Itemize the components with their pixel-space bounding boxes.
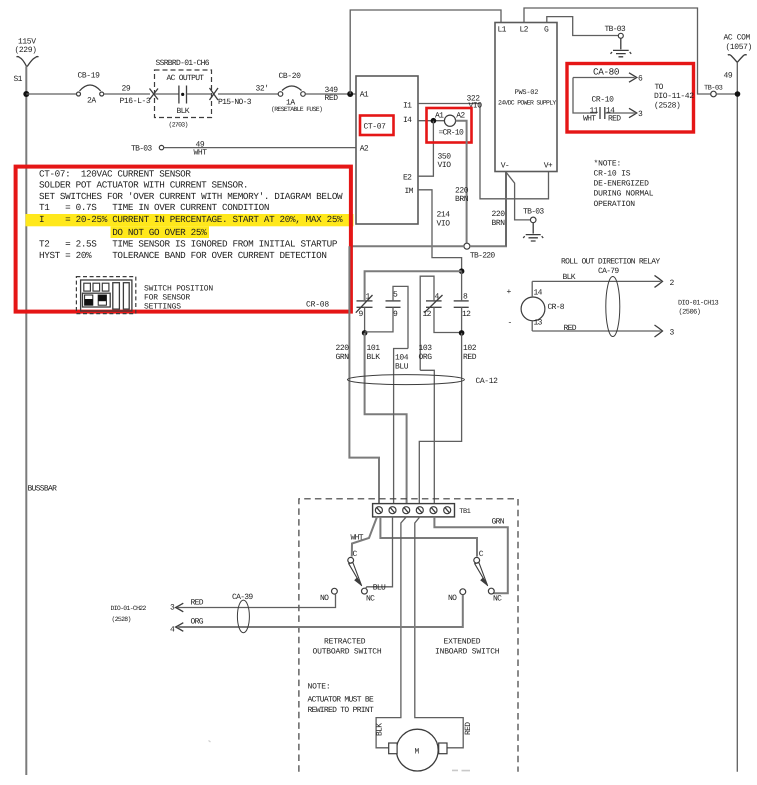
wire 103 ORG bbox=[419, 344, 435, 504]
svg-text:NOTE:: NOTE: bbox=[308, 683, 331, 692]
svg-text:I = 20-25% CURRENT IN PERCE: I = 20-25% CURRENT IN PERCENTAGE. START … bbox=[39, 214, 343, 225]
right switch C terminal bbox=[474, 550, 484, 563]
yellow highlight band 2 bbox=[111, 226, 210, 238]
svg-text:WHT: WHT bbox=[583, 115, 596, 124]
svg-text:GRN: GRN bbox=[492, 518, 505, 527]
svg-text:A1: A1 bbox=[360, 91, 369, 100]
svg-text:TB1: TB1 bbox=[459, 508, 470, 516]
AC COM (1057) source bbox=[724, 34, 752, 63]
junction contacts 4/8 bbox=[459, 330, 465, 336]
contact 8 bottom lead bbox=[461, 307, 463, 333]
svg-text:TB-03: TB-03 bbox=[131, 145, 152, 154]
contact 4 top lead to 103 ORG bbox=[420, 276, 434, 370]
wire CA-80 to pin 6 bbox=[573, 67, 643, 84]
svg-text:VIO: VIO bbox=[437, 220, 451, 229]
svg-text:BLK: BLK bbox=[563, 273, 576, 282]
svg-text:NO: NO bbox=[320, 594, 329, 603]
left switch lever bbox=[349, 562, 362, 586]
RETRACTED OUTBOARD SWITCH label bbox=[313, 638, 382, 657]
wire 102 RED bbox=[419, 333, 477, 504]
svg-text:HYST = 20% TOLERANCE BAND F: HYST = 20% TOLERANCE BAND FOR OVER CURRE… bbox=[39, 250, 327, 261]
svg-text:RETRACTED: RETRACTED bbox=[324, 638, 366, 647]
svg-text:RED: RED bbox=[463, 353, 477, 362]
wire CA-80 left leg bbox=[573, 78, 597, 114]
svg-text:-: - bbox=[508, 319, 512, 328]
wire RED to pin 3 bbox=[532, 321, 674, 338]
svg-text:FOR SENSOR: FOR SENSOR bbox=[144, 293, 190, 302]
junction at S1 bbox=[23, 91, 29, 97]
svg-text:CA-79: CA-79 bbox=[598, 267, 619, 276]
NOTE actuator rewire bbox=[308, 683, 375, 716]
svg-text:(2528): (2528) bbox=[112, 616, 131, 623]
svg-text:(1057): (1057) bbox=[726, 43, 752, 52]
svg-text:I1: I1 bbox=[403, 102, 412, 111]
svg-text:102: 102 bbox=[463, 344, 477, 353]
svg-text:14: 14 bbox=[534, 289, 543, 298]
svg-text:BLK: BLK bbox=[367, 353, 381, 362]
left switch NC terminal bbox=[362, 588, 376, 603]
svg-text:32': 32' bbox=[256, 85, 269, 94]
svg-text:AC OUTPUT: AC OUTPUT bbox=[167, 74, 205, 83]
svg-text:(2703): (2703) bbox=[169, 122, 188, 129]
svg-text:DIO-01-CH22: DIO-01-CH22 bbox=[111, 605, 147, 612]
svg-text:EXTENDED: EXTENDED bbox=[444, 638, 481, 647]
svg-text:L1: L1 bbox=[498, 26, 507, 35]
contact 8 top lead bbox=[461, 271, 463, 301]
svg-text:CT-07: 120VAC CURRENT SENSOR: CT-07: 120VAC CURRENT SENSOR bbox=[39, 168, 191, 179]
wire I4 to CR-10 coil bbox=[418, 120, 445, 122]
svg-text:DIO-01-CH13: DIO-01-CH13 bbox=[678, 300, 719, 308]
contact CR-10 11/14 bbox=[583, 96, 621, 124]
wire 49 to AC COM bus bbox=[716, 72, 737, 95]
svg-text:*NOTE:: *NOTE: bbox=[594, 160, 622, 169]
wire TB-220 rail bbox=[349, 172, 506, 247]
svg-text:L2: L2 bbox=[520, 26, 529, 35]
svg-text:A2: A2 bbox=[360, 145, 369, 154]
svg-text:CR-10: CR-10 bbox=[592, 96, 615, 105]
contact feed rail bbox=[365, 271, 462, 300]
wire contact to pin 3 bbox=[605, 108, 643, 119]
TB1 screw 4 bbox=[416, 507, 423, 514]
TB1 screw 5 bbox=[430, 507, 437, 514]
wire ORG (pin 4 to right NO) bbox=[170, 595, 463, 635]
NOTE: CR-10 de-energized bbox=[594, 160, 654, 210]
svg-text:BLU: BLU bbox=[395, 363, 409, 372]
svg-text:V-: V- bbox=[501, 162, 509, 171]
svg-text:DE-ENERGIZED: DE-ENERGIZED bbox=[594, 180, 650, 189]
svg-text:CR-08: CR-08 bbox=[306, 301, 329, 310]
svg-text:AC COM: AC COM bbox=[724, 34, 751, 43]
svg-text:BUSSBAR: BUSSBAR bbox=[28, 485, 58, 494]
CR-10 annotation red box bbox=[567, 64, 694, 133]
svg-text:BRN: BRN bbox=[492, 219, 506, 228]
junction IM rail bbox=[459, 268, 465, 274]
svg-text:(RESETABLE FUSE): (RESETABLE FUSE) bbox=[271, 106, 322, 113]
svg-text:E2: E2 bbox=[403, 174, 412, 183]
svg-text:214: 214 bbox=[437, 211, 451, 220]
wire 350 VIO (E2 up to coil junction) bbox=[418, 121, 451, 177]
svg-text:T1 = 0.7S TIME IN OVER CUR: T1 = 0.7S TIME IN OVER CURRENT CONDITION bbox=[39, 202, 269, 213]
svg-text:CT-07: CT-07 bbox=[364, 123, 387, 132]
svg-text:DO NOT GO OVER 25%: DO NOT GO OVER 25% bbox=[39, 227, 207, 238]
svg-text:220: 220 bbox=[492, 210, 506, 219]
ground symbol (V- TB-03) bbox=[523, 223, 543, 241]
svg-text:NC: NC bbox=[493, 595, 502, 604]
contact 4 bottom lead bbox=[434, 307, 462, 332]
svg-text:RED: RED bbox=[608, 115, 621, 124]
DIP switch symbol bbox=[76, 277, 135, 314]
svg-text:CB-20: CB-20 bbox=[279, 72, 302, 81]
terminal block TB1 bbox=[373, 504, 471, 517]
terminal TB-220 bbox=[464, 243, 496, 260]
current sensor CT-07 box bbox=[356, 76, 418, 224]
resettable fuse CB-20 bbox=[271, 72, 322, 113]
wire screw3 to motor BLK bbox=[376, 517, 406, 748]
TB1 screw 3 bbox=[403, 507, 410, 514]
svg-text:DIO-11-42: DIO-11-42 bbox=[654, 92, 694, 101]
svg-text:A2: A2 bbox=[456, 112, 465, 121]
svg-text:CR-8: CR-8 bbox=[548, 303, 565, 312]
bussbar wire (left vertical bus) bbox=[25, 67, 27, 776]
svg-text:103: 103 bbox=[419, 344, 433, 353]
contact 5 top lead to 104 BLU bbox=[393, 286, 408, 348]
svg-text:BLU: BLU bbox=[373, 584, 386, 593]
junction contacts 1/5 bbox=[362, 330, 368, 336]
svg-text:(2528): (2528) bbox=[654, 102, 680, 111]
power supply PWS-02 box bbox=[495, 23, 557, 172]
svg-text:IM: IM bbox=[405, 187, 414, 196]
junction on AC COM bus bbox=[735, 91, 741, 97]
svg-text:12: 12 bbox=[423, 310, 432, 319]
wire 220 BRN (V- down to TB-220 rail) bbox=[492, 172, 507, 247]
TB1 screw 1 bbox=[375, 507, 382, 514]
contact 5 bottom lead bbox=[365, 307, 393, 332]
svg-text:V+: V+ bbox=[544, 162, 553, 171]
svg-text:WHT: WHT bbox=[351, 534, 364, 543]
wire 29 / P16-L-3 bbox=[104, 85, 151, 107]
source 115V (229) bbox=[15, 38, 39, 67]
relay contact CR-08 1/9 (NC) bbox=[356, 292, 373, 319]
svg-text:(2506): (2506) bbox=[679, 308, 701, 317]
SSR board dashed box SSRBRD-01-CH6 bbox=[155, 59, 212, 129]
wire WHT (screw1 to left switch C) bbox=[351, 517, 378, 557]
svg-text:BLK: BLK bbox=[376, 723, 385, 736]
wire A1 junction up to PWS L1 bbox=[350, 10, 501, 94]
wire 49 WHT to A2 bbox=[164, 141, 356, 158]
right switch NC terminal bbox=[488, 588, 502, 603]
svg-text:ACTUATOR MUST BE: ACTUATOR MUST BE bbox=[308, 696, 375, 705]
wire GRN (screw5 to right NC) bbox=[434, 517, 507, 593]
svg-text:S1: S1 bbox=[14, 75, 23, 84]
relay coil CR-10 (red box annotation) bbox=[427, 108, 472, 143]
wire 101 BLK bbox=[365, 333, 407, 504]
svg-text:RED: RED bbox=[564, 324, 577, 333]
TB1 screw 6 bbox=[444, 507, 451, 514]
svg-text:WHT: WHT bbox=[194, 149, 208, 158]
svg-text:101: 101 bbox=[367, 344, 381, 353]
svg-text:SOLDER POT ACTUATOR WITH CURRE: SOLDER POT ACTUATOR WITH CURRENT SENSOR. bbox=[39, 180, 248, 191]
splice X at SSR box left bbox=[150, 89, 159, 100]
svg-text:DURING NORMAL: DURING NORMAL bbox=[594, 190, 654, 199]
SSR output symbol (bars with dot) bbox=[155, 86, 212, 104]
wire 220 BRN (coil A2 down to TB-220) bbox=[455, 121, 469, 243]
contact 1 bottom lead bbox=[364, 307, 366, 333]
svg-text:ROLL OUT DIRECTION RELAY: ROLL OUT DIRECTION RELAY bbox=[561, 258, 660, 267]
faint print artifact marks bbox=[452, 769, 470, 771]
right switch NO terminal bbox=[448, 589, 466, 603]
CT-07 note red box bbox=[16, 167, 351, 312]
svg-text:NC: NC bbox=[366, 595, 375, 604]
terminal TB-03 (right) bbox=[704, 85, 723, 97]
relay contact CR-08 8/12 (NO) bbox=[454, 292, 471, 319]
wire RED (pin 3 to left NO) bbox=[170, 594, 336, 612]
DIP switch caption bbox=[144, 285, 213, 312]
splice X at SSR box right bbox=[210, 88, 219, 100]
wire 349 RED bbox=[305, 86, 356, 103]
terminal TB-03 (49 WHT) bbox=[131, 145, 164, 154]
svg-text:T2 = 2.5S TIME SENSOR IS I: T2 = 2.5S TIME SENSOR IS IGNORED FROM IN… bbox=[39, 239, 338, 250]
terminal TB-03 (near V-) bbox=[523, 208, 544, 223]
svg-text:(229): (229) bbox=[15, 46, 37, 55]
svg-text:I4: I4 bbox=[403, 116, 412, 125]
wire V- to TB-03 ground (diagonal) bbox=[506, 172, 531, 220]
svg-text:220: 220 bbox=[336, 344, 350, 353]
svg-text:ORG: ORG bbox=[419, 353, 433, 362]
svg-text:BLK: BLK bbox=[177, 107, 190, 116]
svg-text:CB-19: CB-19 bbox=[78, 72, 101, 81]
wire BLU (screw2 to left NC) bbox=[365, 517, 392, 593]
svg-text:TO: TO bbox=[655, 83, 664, 92]
svg-text:REWIRED TO PRINT: REWIRED TO PRINT bbox=[308, 706, 375, 715]
svg-text:24VDC POWER SUPPLY: 24VDC POWER SUPPLY bbox=[498, 100, 556, 107]
terminal TB-03 (top) bbox=[605, 25, 626, 38]
svg-text:PWS-02: PWS-02 bbox=[515, 89, 539, 97]
wire BLK to pin 2 bbox=[532, 273, 674, 297]
svg-text:NO: NO bbox=[448, 594, 457, 603]
svg-text:A1: A1 bbox=[435, 112, 444, 121]
svg-text:13: 13 bbox=[534, 319, 543, 328]
TB1 screw 2 bbox=[389, 507, 396, 514]
svg-text:CA-80: CA-80 bbox=[593, 67, 619, 78]
wire S1 to CB-19 bbox=[26, 93, 76, 95]
junction I4 / E2 / coil bbox=[431, 118, 437, 124]
svg-text:P15-NO-3: P15-NO-3 bbox=[218, 98, 252, 107]
DIO-01-CH13 (2506) label bbox=[678, 300, 719, 317]
wire L2 to AC COM bus (top frame) bbox=[524, 8, 711, 94]
svg-text:VIO: VIO bbox=[438, 161, 452, 170]
svg-text:OPERATION: OPERATION bbox=[594, 200, 636, 209]
svg-text:SETTINGS: SETTINGS bbox=[144, 302, 181, 311]
svg-text:RED: RED bbox=[191, 599, 204, 608]
yellow highlight band 1 bbox=[26, 214, 354, 226]
ground symbol (top TB-03) bbox=[611, 38, 632, 57]
wire I1 to V+ (322 VIO) bbox=[418, 95, 549, 199]
cable CA-79 ellipse bbox=[606, 277, 620, 337]
svg-text:INBOARD SWITCH: INBOARD SWITCH bbox=[435, 648, 500, 657]
wire screw4 to motor RED bbox=[415, 517, 463, 748]
svg-text:CR-10 IS: CR-10 IS bbox=[594, 170, 631, 179]
cable CA-12 ellipse bbox=[347, 375, 498, 386]
wire G to TB-03 ground bbox=[547, 17, 619, 36]
svg-text:RED: RED bbox=[325, 94, 339, 103]
svg-text:GRN: GRN bbox=[336, 353, 350, 362]
svg-text:49: 49 bbox=[724, 72, 733, 81]
svg-text:SET SWITCHES FOR 'OVER CURRENT: SET SWITCHES FOR 'OVER CURRENT WITH MEMO… bbox=[39, 191, 343, 202]
svg-text:TB-03: TB-03 bbox=[523, 208, 544, 217]
junction at A1 bbox=[347, 91, 353, 97]
wire 32' / P15-NO-3 bbox=[218, 85, 278, 108]
left switch C terminal bbox=[348, 550, 358, 563]
relay CR-8 bbox=[507, 288, 565, 328]
svg-text:BRN: BRN bbox=[455, 195, 469, 204]
svg-text:CA-12: CA-12 bbox=[476, 377, 499, 386]
svg-text:TB-220: TB-220 bbox=[470, 252, 496, 261]
relay contact CR-08 4/12 (NC) bbox=[423, 292, 443, 319]
wire 214 VIO (IM down to contact rail) bbox=[418, 190, 462, 270]
DIO-01-CH22 (2528) label bbox=[111, 605, 147, 623]
svg-text:ORG: ORG bbox=[191, 618, 204, 627]
svg-text:12: 12 bbox=[462, 310, 471, 319]
svg-text:SSRBRD-01-CH6: SSRBRD-01-CH6 bbox=[156, 59, 210, 68]
cable CA-39 ellipse bbox=[232, 593, 253, 633]
svg-text:SWITCH POSITION: SWITCH POSITION bbox=[144, 285, 213, 294]
AC COM bus (right vertical) bbox=[736, 62, 738, 771]
wire screw1 to right switch C bbox=[380, 517, 477, 557]
circuit breaker CB-19 bbox=[77, 72, 104, 106]
svg-text:2A: 2A bbox=[87, 97, 96, 106]
wire 220 GRN bbox=[336, 246, 380, 503]
svg-text:29: 29 bbox=[122, 85, 131, 94]
svg-text:OUTBOARD SWITCH: OUTBOARD SWITCH bbox=[313, 648, 382, 657]
svg-text:104: 104 bbox=[395, 354, 409, 363]
relay contact CR-08 5/9 (NO) bbox=[386, 290, 401, 319]
CT-07 designator (red box) bbox=[360, 116, 394, 136]
wire 104 BLU bbox=[394, 349, 409, 504]
TO DIO-11-42 (2528) label bbox=[654, 83, 694, 111]
motor M bbox=[389, 729, 447, 771]
left switch NO terminal bbox=[320, 588, 337, 603]
right switch lever bbox=[475, 562, 488, 586]
svg-text:TB-03: TB-03 bbox=[605, 25, 626, 34]
EXTENDED INBOARD SWITCH label bbox=[435, 638, 500, 657]
svg-text:=CR-10: =CR-10 bbox=[439, 129, 465, 138]
svg-text:RED: RED bbox=[464, 722, 473, 735]
coil CR-10 circle bbox=[444, 115, 455, 126]
svg-text:P16-L-3: P16-L-3 bbox=[120, 97, 151, 106]
actuator dashed enclosure bbox=[299, 499, 518, 772]
